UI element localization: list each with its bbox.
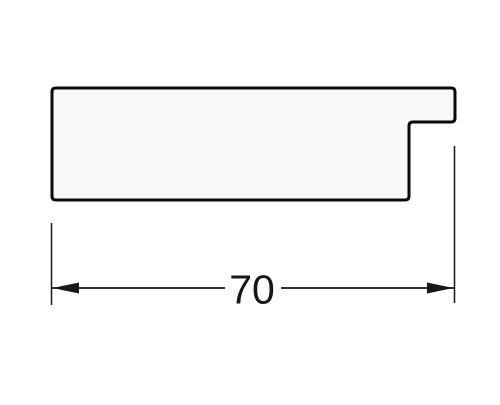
dimension line left segment bbox=[52, 287, 225, 289]
frame profile outline bbox=[52, 88, 455, 200]
dimension line right segment bbox=[281, 287, 454, 289]
extension line left bbox=[51, 223, 53, 305]
svg-text:70: 70 bbox=[229, 267, 275, 313]
arrowhead right bbox=[427, 283, 454, 294]
extension line right bbox=[454, 146, 456, 303]
arrowhead left bbox=[53, 283, 80, 294]
